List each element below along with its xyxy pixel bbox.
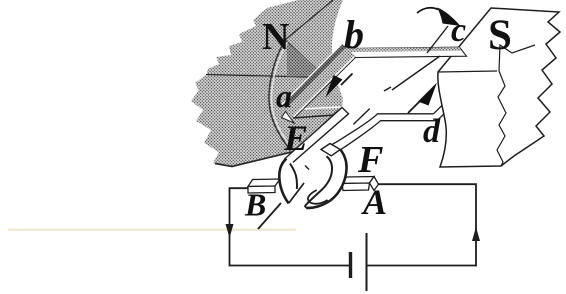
N pole concave face rear rim curve — [269, 41, 291, 151]
S front torn inner edge — [497, 45, 535, 166]
svg-text:N: N — [262, 16, 289, 58]
shaded concave wedge of N pole face — [287, 42, 326, 77]
brush B block — [248, 179, 280, 193]
fold wedge at corner a — [282, 112, 295, 124]
faint scan line — [8, 229, 296, 231]
axle dash-dot segments — [305, 26, 448, 170]
brush A block — [342, 177, 379, 191]
ring F inner surface hook — [308, 190, 328, 204]
S top-face / front-face edge — [438, 71, 497, 72]
coil corner-a horizontal fold band (a to fold) — [289, 107, 348, 118]
coil side da band + cd stub (white fill) — [378, 114, 438, 121]
svg-text:a: a — [276, 78, 292, 114]
ring E inner arc — [290, 164, 297, 190]
commutator half ring E (white fill under) — [279, 159, 304, 204]
ring F bottom end cut — [305, 206, 307, 208]
svg-text:E: E — [283, 118, 308, 158]
label B pointer slash — [258, 203, 281, 229]
current arrow on cd (pointing to c) — [408, 83, 437, 114]
battery positive plate (long) — [366, 233, 368, 291]
cd band upper edge — [434, 103, 445, 114]
right wire current arrow (up) — [472, 227, 480, 241]
magnet N pole body (stippled), jagged left edge, concave pole face right — [191, 0, 343, 167]
svg-text:S: S — [488, 12, 512, 59]
rotation curved arrow — [417, 8, 461, 27]
N top/front divide line — [206, 75, 324, 78]
circuit wire left (brush B to battery) — [230, 188, 350, 265]
svg-text:F: F — [357, 139, 383, 181]
da band bottom edge, bend, lead to ring F — [332, 121, 438, 156]
svg-text:B: B — [244, 187, 266, 223]
left wire current arrow (down) — [226, 224, 234, 238]
fold wedge at right end of horizontal band — [334, 108, 349, 121]
cd band lower edge — [437, 112, 446, 121]
circuit wire right (battery to brush A) — [367, 184, 476, 265]
commutator half ring F (white fill under) — [305, 144, 347, 208]
svg-text:d: d — [423, 113, 441, 150]
ring E outer arc — [279, 159, 288, 204]
N top face right edge — [285, 0, 333, 40]
battery negative plate (short) — [349, 252, 352, 278]
ring F inner arc — [305, 156, 332, 206]
svg-text:c: c — [451, 12, 466, 49]
svg-text:A: A — [361, 182, 387, 222]
coil side ab band (stipple with dark upper strip) — [282, 44, 356, 118]
S pole magnet body with jagged broken edge — [438, 8, 560, 167]
rear rim highlight — [271, 42, 292, 149]
ring E split cut edge — [289, 183, 304, 203]
svg-text:b: b — [344, 12, 364, 57]
N pole-face rim edge — [285, 40, 325, 77]
da band top edge, bend, lead to ring F — [322, 114, 434, 151]
N bottom edge dark line — [215, 151, 298, 167]
current arrow on ab (pointing to a) — [326, 74, 353, 98]
coil top side bc band (over S edge) — [346, 47, 467, 57]
ring F end face — [321, 144, 340, 156]
lead band from fold to ring E — [285, 108, 349, 165]
ring F outer arc — [306, 150, 346, 208]
